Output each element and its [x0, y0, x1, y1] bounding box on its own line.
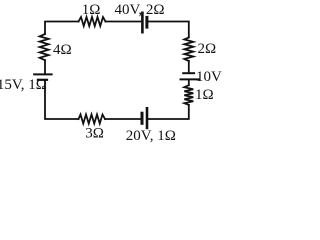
resistor R2 2ohm right	[184, 37, 193, 61]
battery B4 15V 1ohm short plate	[38, 79, 47, 81]
wire top-right segment	[148, 22, 188, 38]
battery B2 10V long plate	[181, 78, 200, 80]
wire right upper-middle segment	[188, 61, 190, 72]
resistor R1 1ohm top	[79, 17, 106, 26]
wire top-middle segment	[106, 21, 142, 23]
svg-text:2Ω: 2Ω	[198, 41, 217, 57]
wire right lower segment	[148, 105, 188, 119]
svg-text:4Ω: 4Ω	[53, 42, 72, 58]
battery B1 40V 2ohm long plate	[141, 13, 144, 32]
svg-text:15V, 1Ω: 15V, 1Ω	[0, 77, 47, 93]
battery B3 20V 1ohm short plate	[141, 113, 144, 123]
resistor R3 1ohm right	[184, 85, 193, 105]
wire top-left segment	[45, 22, 79, 35]
wire left battery stub	[44, 60, 46, 73]
battery B3 20V 1ohm long plate	[146, 108, 149, 128]
wire bottom-left segment	[45, 81, 79, 119]
svg-text:40V, 2Ω: 40V, 2Ω	[115, 2, 165, 18]
resistor R5 4ohm left	[40, 34, 49, 60]
svg-text:1Ω: 1Ω	[82, 2, 101, 18]
battery B4 15V 1ohm long plate	[34, 73, 51, 75]
svg-text:10V: 10V	[196, 69, 222, 85]
battery B1 40V 2ohm short plate	[145, 17, 148, 27]
svg-text:1Ω: 1Ω	[195, 87, 214, 103]
wire right battery stub	[188, 80, 190, 85]
resistor R4 3ohm bottom	[79, 115, 106, 124]
wire bottom-middle segment	[105, 118, 141, 120]
svg-text:3Ω: 3Ω	[85, 125, 104, 141]
svg-text:20V, 1Ω: 20V, 1Ω	[126, 128, 176, 144]
battery B2 10V short plate	[183, 72, 194, 74]
